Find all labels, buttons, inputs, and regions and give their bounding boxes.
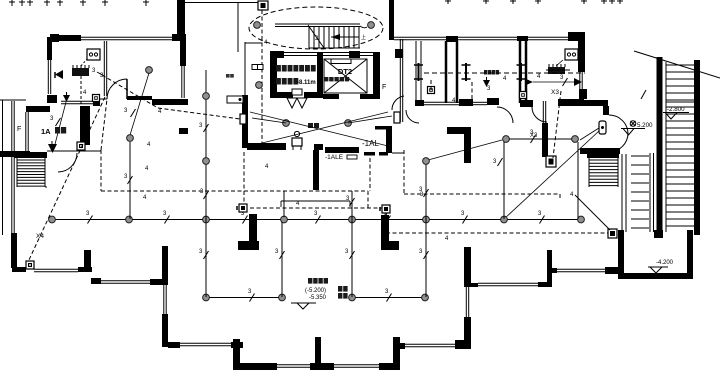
svg-text:F: F [382,84,386,91]
svg-text:F: F [17,126,21,133]
svg-text:X4: X4 [36,233,44,240]
svg-text:1A: 1A [41,127,51,136]
svg-text:X3: X3 [551,89,559,96]
svg-text:5.200: 5.200 [637,122,653,129]
svg-text:-8.11m: -8.11m [297,80,316,86]
svg-text:上: 上 [361,34,366,41]
svg-text:(-5.200): (-5.200) [305,288,326,294]
svg-text:-2.800: -2.800 [667,106,685,113]
svg-text:-5.350: -5.350 [309,295,327,301]
svg-text:-4.200: -4.200 [656,260,674,266]
svg-text:DT2: DT2 [338,67,352,76]
svg-text:-1ALE: -1ALE [325,154,344,161]
